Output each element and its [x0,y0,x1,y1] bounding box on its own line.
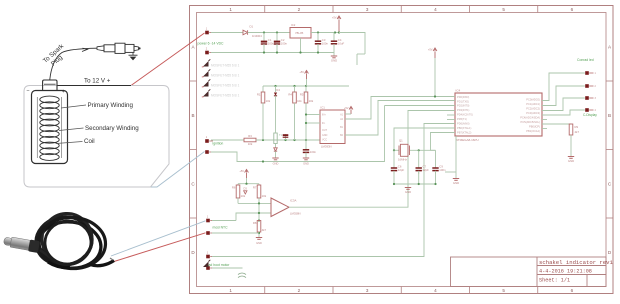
svg-text:+: + [62,89,65,95]
spare mosfet marker row 3 [203,81,209,87]
ground symbol GND power section [333,53,335,56]
IC4 right pin stubs [542,100,547,102]
wire XTAL2 from IC4 [431,133,456,151]
svg-text:power 6 -14 VDC: power 6 -14 VDC [198,41,225,45]
capacitor C3 100nF [317,33,319,39]
connector X1 power input pad 1 [205,31,209,35]
op-amp IC3A [271,198,289,217]
secondary winding leader [59,128,84,131]
svg-text:PD2(INT0): PD2(INT0) [457,104,470,108]
wire +5V rail going right and down [339,33,365,55]
svg-text:schakel indicator rev1: schakel indicator rev1 [539,259,613,266]
svg-text:+5V: +5V [344,106,349,110]
svg-text:PC3(ADC3): PC3(ADC3) [526,111,540,115]
svg-text:100n: 100n [439,168,446,172]
resistor R1 vertical [262,86,264,92]
svg-text:100n: 100n [322,41,329,45]
svg-text:R5: R5 [300,92,304,96]
svg-text:PC5(ADC5/SCL): PC5(ADC5/SCL) [521,120,541,124]
svg-text:ATMEGA8-16PU: ATMEGA8-16PU [456,138,479,142]
svg-text:IC2: IC2 [291,23,296,27]
temperature probe cable coil [33,213,96,269]
blue callout probe to X3-1 [111,221,206,256]
illustration panel outline [24,86,169,188]
voltage regulator IC2 78L05 [290,28,311,39]
IC4 left pin stubs [447,96,455,98]
ground symbol below R9 [568,156,574,158]
svg-text:+5V: +5V [428,47,433,51]
zener diode D2 [275,144,277,148]
ground wire below IC4 [455,136,457,178]
svg-text:2: 2 [298,7,301,12]
wire MCU to X5 pad2 [542,86,585,106]
svg-text:D3: D3 [244,186,248,190]
resistor R4 vertical [294,86,296,92]
wire XTAL1 from IC4 [394,128,455,150]
connector X4 pad 2 [206,266,210,270]
svg-text:D4: D4 [276,88,280,92]
svg-text:Conrad led: Conrad led [577,58,594,62]
+5V symbol IC1 right [349,107,353,110]
svg-text:PC0(ADC0): PC0(ADC0) [526,98,540,102]
svg-text:PC4(ADC4/SDA): PC4(ADC4/SDA) [520,115,540,119]
wire to 12V [57,85,131,87]
svg-text:GND: GND [331,58,337,62]
svg-text:GND: GND [256,241,262,245]
svg-text:ad hoot motor: ad hoot motor [209,263,231,267]
svg-text:R3: R3 [248,134,252,138]
svg-text:MOSFET-N55 6 B 1: MOSFET-N55 6 B 1 [211,84,240,88]
svg-text:MOSFET-N55 6 B 1: MOSFET-N55 6 B 1 [211,64,240,68]
svg-text:IC3A: IC3A [290,199,296,203]
wire MCU to X5 pad4 [542,110,585,115]
crystal ground rail [394,183,436,185]
wire X4-2 stub with motor mark [212,267,243,269]
wire op-amp output to MCU [289,111,455,208]
connector X1 power input pad 2 [205,51,209,55]
capacitor C7 22pF [418,150,420,165]
svg-text:3: 3 [366,288,369,293]
svg-text:PB0(ICP): PB0(ICP) [529,124,540,128]
label To Spark Plug [42,42,71,70]
resistor R3 [244,138,256,142]
svg-text:Secondary Winding: Secondary Winding [85,125,139,132]
+5V symbol op-amp divider [245,170,249,173]
coil terminal [43,80,57,91]
spare marker X4 [203,262,209,268]
capacitor C4 10uF [333,33,335,39]
svg-text:GND: GND [303,162,309,166]
svg-text:Coil: Coil [84,138,95,145]
ground symbol crystal section [407,184,409,187]
blue callout coil to X2 [100,152,205,188]
svg-text:1N4004: 1N4004 [252,34,262,38]
coil inner core lines [36,97,38,158]
svg-text:PD0(RXD): PD0(RXD) [457,95,469,99]
capacitor C6 22pF [393,150,395,165]
+5V supply symbol at regulator output [337,16,341,19]
svg-text:PD1(TXD): PD1(TXD) [457,99,469,103]
connector X3 NTC pad 1 [206,219,210,223]
svg-text:4k7: 4k7 [575,130,580,134]
svg-text:B: B [191,113,194,118]
connector X5 display pad 1 [585,71,589,75]
primary winding leader [61,105,86,108]
svg-text:R4: R4 [288,92,292,96]
wire IC1 pin right 2 to MCU bus [345,101,455,136]
ground symbol below IC4 [453,178,459,180]
spare mosfet marker row 1 [203,61,209,67]
frame column ticks top/bottom [264,6,266,13]
svg-text:PD6(AIN0): PD6(AIN0) [457,122,470,126]
wire IC2 output to +5V [311,32,344,34]
svg-text:PD3(INT1): PD3(INT1) [457,108,470,112]
svg-text:IC1: IC1 [321,106,326,110]
svg-text:16MHz: 16MHz [398,158,407,162]
svg-text:B: B [608,113,611,118]
crystal Q1 16MHz [394,149,399,151]
coil body [32,91,68,164]
svg-text:IN+: IN+ [322,114,326,117]
svg-text:IC4: IC4 [456,88,461,92]
coil label leader [56,142,83,144]
svg-text:10k: 10k [266,99,271,103]
svg-text:100n: 100n [310,150,317,154]
svg-text:C-Display: C-Display [583,113,597,117]
svg-text:10k: 10k [297,99,302,103]
svg-text:Q1: Q1 [399,139,403,143]
svg-text:R7: R7 [253,185,257,189]
svg-text:R1: R1 [257,92,261,96]
spare mosfet marker row 4 [203,91,209,97]
wire IC1 pin right 3 to MCU bus [385,105,456,107]
resistor R9 vertical [569,124,573,135]
svg-text:10uF: 10uF [338,41,345,45]
ground symbol below C8 [303,157,309,159]
svg-text:−: − [26,89,29,95]
svg-text:6: 6 [571,7,574,12]
connector X4 pad 1 [206,255,210,259]
svg-text:GND: GND [322,134,328,137]
svg-text:Primary Winding: Primary Winding [88,102,134,109]
wire R3 to IC1 [256,139,320,141]
svg-text:To 12 V +: To 12 V + [84,78,111,85]
red callout 12V to X1 [131,33,205,86]
svg-text:mosi NTC: mosi NTC [213,226,229,230]
svg-text:LM358N: LM358N [290,212,301,216]
svg-text:MOSFET-N55 6 B 1: MOSFET-N55 6 B 1 [211,94,240,98]
svg-text:PD5(T1): PD5(T1) [457,117,467,121]
svg-text:+5V: +5V [332,15,337,19]
wire MCU to X5 pad3 [542,98,585,111]
svg-text:22pF: 22pF [423,168,430,172]
svg-text:3: 3 [366,7,369,12]
connector X5 display pad 2 [585,84,589,88]
wire coil to spark plug [50,48,97,79]
wire X4-1 to MCU [212,124,455,257]
coil spring winding [40,96,59,103]
spark plug body [97,46,104,51]
wire D1 to IC2 input [248,32,290,34]
svg-text:100n: 100n [281,41,288,45]
ground symbol below D2 [272,157,278,159]
svg-text:Sheet: 1/1: Sheet: 1/1 [539,278,570,284]
svg-text:GND: GND [568,159,574,163]
svg-text:OUT: OUT [322,129,328,132]
svg-text:10k: 10k [248,142,253,146]
ground rail of power section [211,52,334,54]
+5V symbol MCU supply [433,48,437,51]
divider rail [238,183,259,185]
wire R5 column to IC1 pin left top [306,114,320,116]
svg-text:10k: 10k [241,194,246,198]
capacitor C8 filter [305,140,307,150]
svg-text:PB7(XTAL2): PB7(XTAL2) [457,130,472,134]
red callout probe to X3-2 [114,233,206,262]
frame outer border [190,6,614,294]
small cap C10 above wire [285,134,287,140]
svg-text:R9: R9 [575,125,579,129]
svg-text:PB1(OC1A): PB1(OC1A) [526,129,540,133]
svg-text:2: 2 [298,288,301,293]
svg-text:4: 4 [434,288,437,293]
svg-text:LM393N: LM393N [321,145,332,149]
diode D1 1N4004 [243,30,248,35]
svg-text:6: 6 [571,288,574,293]
svg-text:D1: D1 [250,24,254,28]
wire R6 to op-amp inverting input [238,202,271,204]
svg-text:IN-: IN- [322,122,325,125]
svg-text:PC2(ADC2): PC2(ADC2) [526,107,540,111]
svg-text:GND: GND [273,162,279,166]
svg-text:5: 5 [502,288,505,293]
svg-text:4-4-2016 19:21:08: 4-4-2016 19:21:08 [539,269,592,275]
wire X1-1 to D1 [211,32,243,34]
resistor R8 vertical [258,219,260,221]
+5V symbol on pull-up rail [305,71,309,74]
svg-text:1: 1 [229,7,232,12]
connector X5 display pad 3 [585,96,589,100]
frame inner border [197,13,607,287]
svg-text:10k: 10k [309,99,314,103]
svg-text:PC1(ADC1): PC1(ADC1) [526,102,540,106]
spare mosfet marker row 2 [203,71,209,77]
pull-up rail +5V for IC1 [263,85,349,87]
connector X5 display pad 4 [585,108,589,112]
svg-text:PD4(XCK/T0): PD4(XCK/T0) [457,113,473,117]
wire X2-2 down and right to MCU [211,106,385,162]
svg-text:+5V: +5V [299,70,304,74]
svg-text:5: 5 [502,7,505,12]
wire R5 column to IC1 pin left 2 [306,122,320,124]
wire MCU to X5 pad1 [542,73,585,101]
diode D4 vertical [275,86,277,92]
svg-text:ignition: ignition [213,142,224,146]
svg-text:78L05: 78L05 [295,31,304,35]
resistor R6 vertical [237,184,239,185]
capacitor C9 100nF AREF [435,150,437,165]
wire NTC to op-amp non-inverting input [236,213,271,221]
probe lead wires [110,258,113,260]
svg-text:PB6(XTAL1): PB6(XTAL1) [457,126,472,130]
wire X3-1 to divider node [212,220,236,222]
connector X3 NTC pad 2 [206,231,210,235]
capacitor C1 100uF [263,33,265,39]
svg-text:10k: 10k [262,194,267,198]
optocoupler input element OK1 [274,133,277,144]
svg-text:4k7: 4k7 [262,228,267,232]
svg-text:22pF: 22pF [398,168,405,172]
svg-text:VCC: VCC [322,139,327,142]
frame row ticks left/right [190,80,197,82]
svg-text:1: 1 [229,288,232,293]
capacitor C2 100nF [276,33,278,39]
title block outline [451,257,607,287]
svg-text:GND: GND [405,190,411,194]
svg-text:R8: R8 [253,221,257,225]
wire X2-1 to R3 [211,139,244,141]
svg-text:4: 4 [434,7,437,12]
svg-text:GND: GND [453,181,459,185]
resistor R7 vertical [258,184,260,185]
IC1 8-pin comparator box [320,110,345,144]
svg-text:R6: R6 [232,185,236,189]
svg-text:MOSFET-N55 6 B 1: MOSFET-N55 6 B 1 [211,74,240,78]
svg-text:+5V: +5V [239,169,244,173]
ground symbol below R8 [258,232,260,234]
wire MCU to R9 [542,123,571,125]
wire IC1 pin right 1 to MCU bus [345,97,455,120]
spark plug ground symbol [132,53,134,55]
connector X2 ignition pad 1 [205,139,209,143]
microcontroller IC4 ATMEGA8 [455,93,542,136]
connector X2 ignition pad 2 [205,150,209,154]
resistor R5 vertical [305,86,307,92]
wire X3-2 to ground net [212,232,259,234]
